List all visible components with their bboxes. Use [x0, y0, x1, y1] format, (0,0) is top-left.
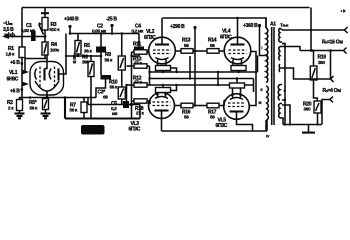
svg-text:6П3С: 6П3С — [220, 35, 232, 41]
svg-text:+340 В: +340 В — [64, 17, 79, 23]
phase line left (to bottom bank) — [126, 85, 128, 105]
16 ohm bottom wire — [300, 50, 344, 52]
mid vertical a2 — [171, 85, 177, 91]
ground under R2 — [15, 111, 25, 119]
mid cross wire 3 — [147, 84, 254, 86]
anode supply rail — [70, 33, 139, 35]
16 ohm bottom terminal — [344, 48, 347, 54]
wire R1 to grid2/R2 — [21, 58, 23, 100]
right feedback drop — [311, 8, 314, 67]
mid vertical d — [257, 56, 259, 73]
svg-text:+360 В: +360 В — [243, 23, 258, 29]
phase line right (to bottom bank) — [131, 52, 133, 105]
svg-text:Rн=16 Ом: Rн=16 Ом — [322, 40, 343, 46]
-25V terminal — [106, 17, 117, 34]
secondary winding top — [279, 28, 282, 42]
secondary winding 3 — [279, 64, 282, 72]
svg-text:0,02 мк: 0,02 мк — [21, 28, 36, 33]
grid wire C5 row — [88, 104, 140, 106]
resistor R13a 56 — [181, 38, 195, 54]
VL1 heater arc — [35, 81, 59, 91]
svg-text:56: 56 — [210, 115, 215, 120]
svg-text:+290 В: +290 В — [170, 24, 185, 30]
VL1 grid1 dashed — [39, 67, 41, 89]
transformer core — [272, 27, 274, 125]
resistor R19 — [310, 55, 326, 102]
junction input x NFB — [21, 35, 24, 38]
VL1 anode1 — [45, 55, 48, 81]
tube VL3 — [129, 93, 175, 133]
grid2 arrow — [22, 82, 29, 87]
VL5 cathode top — [230, 88, 243, 100]
resistor R11 — [132, 42, 150, 55]
VL4 anode — [231, 18, 245, 45]
svg-text:6П3С: 6П3С — [144, 35, 156, 41]
svg-text:56: 56 — [210, 43, 215, 48]
svg-text:56 к: 56 к — [105, 58, 113, 63]
VL3 cathode resistor box — [156, 85, 171, 93]
svg-text:+6 В: +6 В — [10, 89, 20, 95]
VL3 anode — [155, 111, 169, 132]
mid vertical a — [171, 68, 177, 72]
chassis ground — [302, 125, 315, 133]
svg-text:360: 360 — [304, 107, 312, 112]
resistor R7 — [70, 98, 88, 119]
+6V dot upper — [20, 62, 23, 65]
input terminal arrow — [2, 34, 9, 39]
VL3 cathode top — [155, 93, 168, 99]
svg-text:I: I — [262, 46, 263, 50]
VL3 screen lead — [174, 105, 181, 107]
primary winding II — [266, 56, 268, 83]
+6V dot lower — [20, 88, 23, 91]
secondary tap mid — [282, 105, 290, 125]
mid cross wire 2 — [150, 78, 254, 80]
svg-text:36 к: 36 к — [84, 49, 92, 54]
VL1 heater lead — [46, 91, 48, 98]
wire input to C1 — [7, 36, 31, 38]
svg-text:Rн=4 Ом: Rн=4 Ом — [323, 88, 342, 94]
anode rail top bank — [163, 18, 267, 28]
secondary winding 2 — [279, 47, 282, 61]
resistor R5 — [75, 34, 92, 58]
VL5 anode — [230, 112, 253, 132]
inter-row vertical — [149, 66, 151, 85]
VL1 cathode2 arc — [49, 69, 51, 80]
svg-text:100к: 100к — [50, 48, 60, 53]
riser to ground bus — [139, 105, 141, 119]
svg-text:A1: A1 — [270, 22, 276, 28]
svg-text:56: 56 — [184, 115, 189, 120]
capacitor C3* — [96, 75, 111, 100]
secondary winding 4 — [278, 85, 282, 101]
figure label black box — [81, 125, 105, 135]
VL2 grids dashed — [153, 50, 171, 54]
resistor R17 56 — [195, 101, 226, 120]
VL5 cathode resistor box — [230, 79, 245, 89]
VL2 screen lead — [175, 50, 181, 52]
ground under R5* — [41, 110, 51, 119]
svg-text:+6 В: +6 В — [10, 60, 20, 66]
anode rail bottom bank — [162, 120, 268, 131]
resistor R14 56 — [195, 38, 224, 54]
svg-text:III: III — [259, 101, 262, 105]
tap wire to 16 bottom — [282, 47, 300, 51]
VL4 screen lead — [250, 52, 257, 106]
svg-text:56 к: 56 к — [70, 108, 78, 113]
mid vertical c — [217, 72, 219, 85]
VL2 cathode resistor box — [156, 66, 171, 73]
VL1 grid2 dashed — [54, 67, 56, 89]
resistor R13 row2 — [127, 57, 150, 69]
svg-text:56 к: 56 к — [30, 106, 38, 111]
resistor R1 — [6, 46, 26, 58]
resistor R18 row4 — [132, 99, 151, 116]
svg-text:510 к: 510 к — [50, 27, 61, 32]
VL5 grids dashed — [228, 103, 245, 107]
label Uin — [3, 21, 17, 39]
svg-text:6Н9С: 6Н9С — [7, 77, 19, 83]
+340V terminal — [64, 17, 79, 34]
svg-text:56 к: 56 к — [110, 85, 118, 90]
VL3 grids dashed — [153, 102, 171, 106]
wire C1 to node A — [36, 36, 45, 38]
capacitor C5 — [111, 101, 129, 116]
resistor R4 — [42, 37, 60, 56]
drop to ground bus — [131, 105, 133, 119]
primary winding I — [266, 18, 268, 60]
VL1 cathode1 arc — [35, 69, 37, 80]
top-right plus mark — [341, 9, 346, 13]
4 ohm top terminal — [331, 76, 334, 82]
svg-text:27 к: 27 к — [134, 80, 142, 85]
svg-text:0,05 мк: 0,05 мк — [92, 29, 107, 34]
VL2 anode — [155, 18, 169, 45]
+360V terminal — [243, 23, 266, 56]
svg-text:1,8 к: 1,8 к — [6, 52, 15, 57]
resistor R16 56 — [181, 103, 195, 119]
svg-text:VL1: VL1 — [9, 70, 18, 76]
resistor R2 — [7, 100, 23, 111]
resistor R6 — [82, 55, 94, 119]
+290V terminal — [170, 24, 197, 30]
resistor R5* (cathodyne) — [29, 99, 49, 111]
left NFB wire down — [21, 8, 23, 48]
primary winding III — [266, 86, 268, 131]
long left vertical from tap — [282, 44, 285, 125]
svg-text:Рис.10: Рис.10 — [84, 128, 99, 133]
anode2 signal wire — [66, 55, 101, 57]
resistor R9 — [105, 32, 126, 70]
VL1 anode2 — [59, 34, 67, 81]
wire R4 to grid1 — [25, 55, 47, 71]
ground bus bottom left — [65, 98, 140, 119]
resistor R10 — [109, 70, 125, 105]
capacitor C4 — [132, 24, 145, 57]
16 ohm top wire — [282, 29, 345, 31]
svg-text:II: II — [261, 88, 263, 92]
resistor R12 row3 — [127, 76, 150, 88]
4 ohm bottom terminal — [330, 97, 333, 103]
tube VL4 — [220, 29, 251, 64]
16 ohm top terminal — [345, 27, 348, 33]
svg-text:6П3С: 6П3С — [129, 126, 141, 132]
svg-text:0,2 мк: 0,2 мк — [132, 29, 145, 34]
secondary winding 5 — [279, 104, 283, 125]
cathode bus wire — [20, 98, 97, 100]
mid vertical e — [253, 79, 255, 93]
tube VL1 envelope — [30, 62, 64, 96]
svg-text:Твых: Твых — [280, 23, 289, 28]
mid vertical b — [189, 56, 191, 79]
svg-text:27 к: 27 к — [134, 46, 142, 51]
svg-text:6П3С: 6П3С — [216, 123, 228, 129]
VL4 cathode resistor box — [231, 66, 246, 73]
svg-text:68: 68 — [103, 95, 108, 100]
screen supply rail — [194, 28, 196, 106]
svg-text:56: 56 — [184, 43, 189, 48]
tube VL2 — [144, 29, 175, 64]
top feedback rail — [22, 7, 310, 9]
4 ohm top wire — [282, 51, 331, 80]
resistor R20 — [303, 101, 321, 125]
svg-text:27 к: 27 к — [136, 111, 144, 116]
svg-text:390: 390 — [82, 60, 90, 65]
mid cross wire 1 — [150, 71, 258, 73]
VL4 cathode — [231, 58, 244, 66]
svg-text:27 к: 27 к — [134, 61, 142, 66]
4 ohm bottom wire — [322, 100, 330, 125]
node A junction dot — [44, 35, 47, 38]
VL4 grids dashed — [229, 50, 247, 54]
svg-text:360: 360 — [318, 60, 326, 65]
VL2 cathode — [156, 58, 169, 66]
capacitor C2 — [92, 24, 107, 76]
capacitor C1 — [31, 31, 36, 41]
svg-text:IV: IV — [266, 135, 270, 139]
secondary tap 100 — [282, 99, 285, 101]
svg-text:-25 В: -25 В — [106, 17, 117, 23]
tube VL5 — [216, 94, 250, 129]
potentiometer R3 — [39, 8, 61, 37]
grid1 arrow — [22, 70, 29, 75]
ground bus right — [283, 124, 322, 126]
